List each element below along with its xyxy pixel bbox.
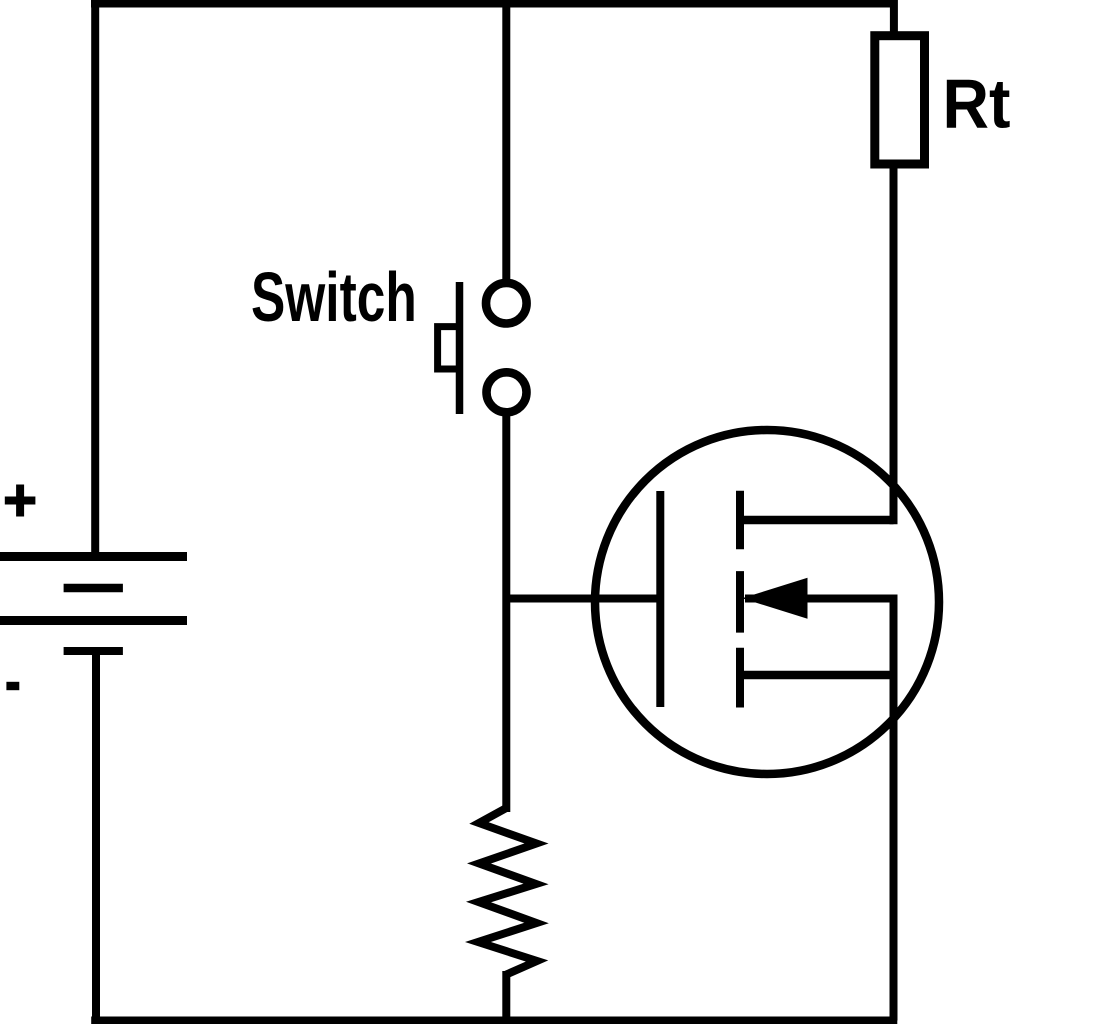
wire drain vertical (Rt to Q1) xyxy=(890,164,898,524)
switch S1 button bracket xyxy=(438,327,460,369)
battery BT1 plate short xyxy=(64,584,123,593)
switch S1 contact top xyxy=(486,283,527,324)
transistor Q1 source lead xyxy=(740,671,894,680)
wire left border upper xyxy=(91,0,99,556)
transistor Q1 body arrow xyxy=(742,578,808,619)
transistor Q1 gate bar xyxy=(656,491,664,707)
transistor Q1 channel dash top xyxy=(736,491,744,550)
transistor Q1 body lead xyxy=(745,595,894,603)
wire switch top xyxy=(502,4,510,304)
wire left border lower (battery negative lead) xyxy=(92,650,100,1021)
battery BT1 plate long (+) xyxy=(0,552,187,561)
wire source vertical to bottom border xyxy=(890,595,898,1021)
wire resistor R1 bottom xyxy=(502,971,510,1021)
resistor R1 zigzag xyxy=(478,808,537,975)
transistor Q1 channel dash bottom xyxy=(736,648,744,708)
battery label - xyxy=(6,682,19,690)
svg-text:Switch: Switch xyxy=(251,258,417,337)
switch S1 contact bottom xyxy=(487,372,527,412)
switch S1 actuator bar xyxy=(456,282,464,414)
transistor Q1 envelope circle xyxy=(595,430,939,774)
battery BT1 plate long xyxy=(0,616,187,625)
battery BT1 plate short (-) xyxy=(64,647,123,655)
transistor Q1 channel dash middle xyxy=(736,571,744,633)
wire bottom border xyxy=(91,1017,897,1024)
battery label + xyxy=(5,485,36,517)
transistor Q1 drain lead xyxy=(740,516,894,525)
svg-text:Rt: Rt xyxy=(943,65,1011,143)
wire right border top (to Rt) xyxy=(890,0,898,36)
wire top border xyxy=(91,0,898,8)
resistor Rt box xyxy=(875,36,925,164)
wire switch bottom to gate node and resistor xyxy=(502,392,510,812)
wire gate lead xyxy=(506,595,660,603)
